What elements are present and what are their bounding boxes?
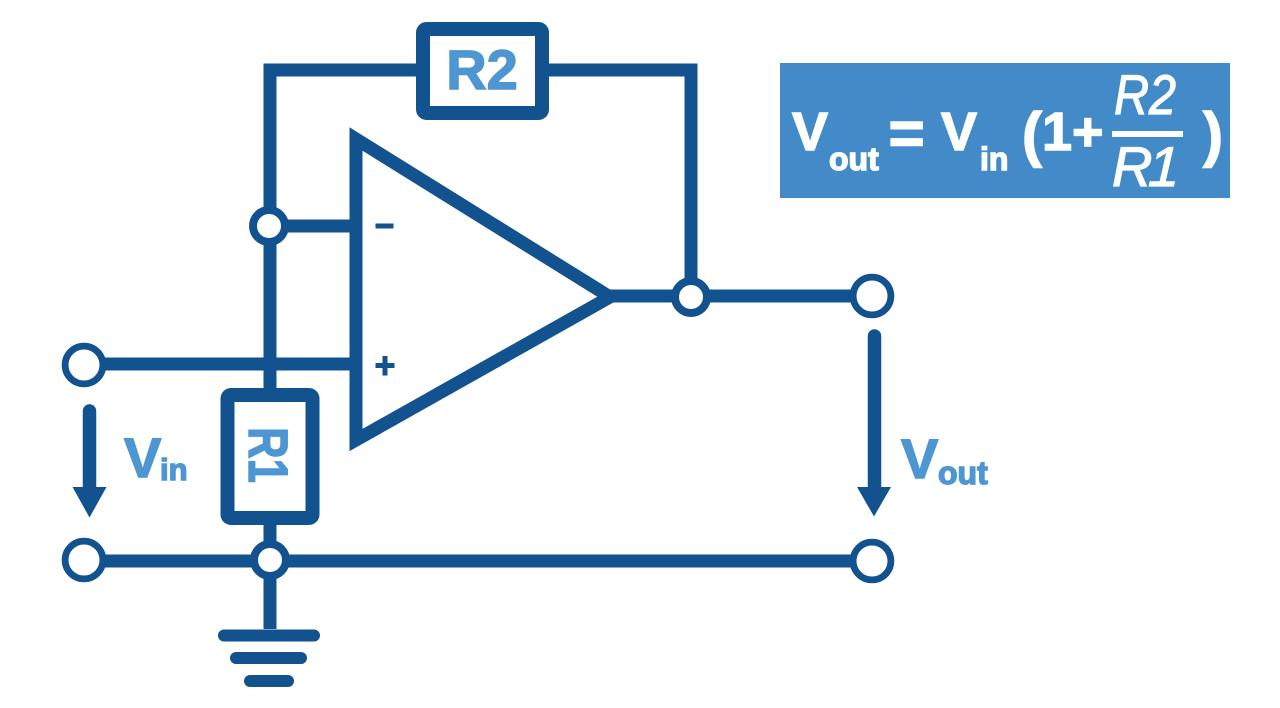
svg-text:in: in (980, 141, 1008, 177)
svg-text:out: out (829, 141, 879, 177)
svg-text:(: ( (1022, 101, 1042, 168)
svg-text:V: V (941, 102, 977, 162)
svg-text:in: in (160, 452, 188, 487)
svg-text:R2: R2 (446, 38, 518, 101)
svg-text:R2: R2 (1114, 63, 1176, 126)
svg-text:V: V (901, 427, 938, 490)
svg-text:out: out (938, 455, 988, 491)
svg-text:V: V (124, 426, 161, 489)
svg-text:V: V (792, 102, 828, 162)
svg-text:R1: R1 (237, 427, 299, 483)
svg-text:=: = (889, 100, 925, 169)
svg-text:1+: 1+ (1042, 102, 1104, 162)
svg-text:): ) (1203, 101, 1223, 168)
